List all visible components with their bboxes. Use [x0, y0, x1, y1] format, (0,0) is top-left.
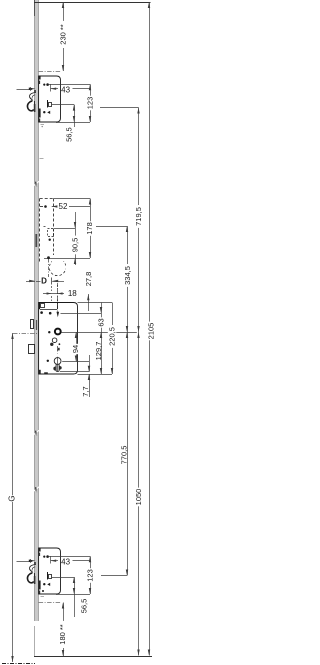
svg-text:334,5: 334,5 [123, 266, 132, 285]
svg-text:94: 94 [71, 345, 80, 353]
svg-text:43: 43 [61, 86, 70, 95]
svg-text:1050: 1050 [134, 489, 143, 506]
svg-text:230 **: 230 ** [59, 24, 68, 45]
svg-text:123: 123 [85, 97, 94, 110]
svg-text:123: 123 [85, 569, 94, 582]
svg-text:770,5: 770,5 [119, 446, 128, 465]
svg-text:178: 178 [85, 222, 94, 235]
svg-text:220,5: 220,5 [108, 327, 117, 346]
svg-text:43: 43 [61, 558, 70, 567]
svg-text:18: 18 [68, 289, 77, 298]
svg-text:7,7: 7,7 [81, 386, 90, 396]
svg-text:D: D [41, 277, 47, 286]
svg-text:27,8: 27,8 [84, 272, 93, 287]
svg-text:180 **: 180 ** [58, 624, 67, 645]
svg-text:90,5: 90,5 [71, 238, 80, 253]
svg-text:129,7: 129,7 [94, 342, 103, 361]
svg-text:2105: 2105 [146, 323, 154, 340]
svg-text:56,5: 56,5 [80, 599, 89, 614]
svg-text:G: G [8, 495, 17, 501]
svg-text:63: 63 [97, 318, 106, 326]
svg-text:719,5: 719,5 [134, 207, 143, 226]
svg-text:56,5: 56,5 [65, 127, 74, 142]
svg-text:52: 52 [59, 202, 68, 211]
